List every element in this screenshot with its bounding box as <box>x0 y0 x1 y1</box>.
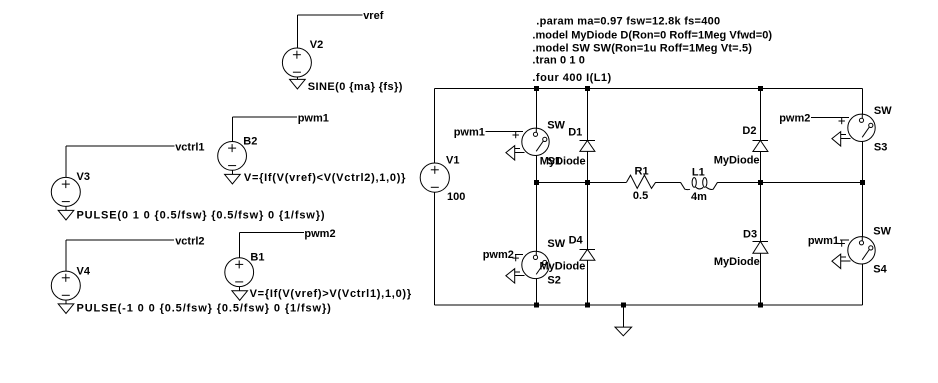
svg-text:.model SW SW(Ron=1u Roff=1Meg: .model SW SW(Ron=1u Roff=1Meg Vt=.5) <box>532 42 752 54</box>
wire control pwm1 to S4 <box>840 239 849 241</box>
svg-text:V={If(V(vref)>V(Vctrl1),1,0)}: V={If(V(vref)>V(Vctrl1),1,0)} <box>250 288 412 300</box>
svg-text:B2: B2 <box>243 135 257 147</box>
svg-text:PULSE(-1 0 0 {0.5/fsw} {0.5/fs: PULSE(-1 0 0 {0.5/fsw} {0.5/fsw} 0 {1/fs… <box>77 303 332 315</box>
junction dot bottom rail at D3 column <box>758 303 763 308</box>
svg-text:SINE(0 {ma} {fs}): SINE(0 {ma} {fs}) <box>308 81 403 93</box>
svg-text:PULSE(0 1 0 {0.5/fsw} {0.5/fsw: PULSE(0 1 0 {0.5/fsw} {0.5/fsw} 0 {1/fsw… <box>77 210 325 222</box>
svg-text:MyDiode: MyDiode <box>540 155 586 167</box>
behavioral source B2 <box>218 142 247 171</box>
ground below B2 <box>225 170 241 184</box>
svg-text:.model MyDiode D(Ron=0 Roff=1M: .model MyDiode D(Ron=0 Roff=1Meg Vfwd=0) <box>532 30 772 42</box>
wire S4 bottom <box>861 260 863 305</box>
svg-text:B1: B1 <box>250 251 264 263</box>
wire mid rail right <box>718 181 863 183</box>
voltage source V4 <box>51 271 80 300</box>
svg-text:S3: S3 <box>874 141 887 153</box>
voltage source V2 <box>282 48 311 77</box>
wire S1 bottom to mid rail <box>535 151 537 182</box>
svg-text:MyDiode: MyDiode <box>714 256 760 268</box>
wire control pwm2 to S2 <box>515 253 523 255</box>
svg-text:.four 400 I(L1): .four 400 I(L1) <box>532 72 611 84</box>
switch S2 <box>506 251 549 283</box>
wire D4 top <box>586 182 588 249</box>
svg-text:D4: D4 <box>569 235 584 247</box>
wire net vctrl2 from V4 <box>66 240 174 271</box>
ground main <box>615 327 632 336</box>
svg-text:vctrl1: vctrl1 <box>175 141 204 153</box>
wire mid rail between R1 and L1 <box>656 181 681 183</box>
wire S3 bottom to mid rail <box>861 137 863 182</box>
junction dot top rail at S1 column <box>534 86 539 91</box>
wire net vref from V2 <box>297 15 362 48</box>
svg-text:.param ma=0.97 fsw=12.8k fs=40: .param ma=0.97 fsw=12.8k fs=400 <box>536 16 720 28</box>
diode D4 <box>580 249 595 260</box>
wire D3 top <box>759 182 761 241</box>
resistor R1 <box>627 175 656 188</box>
wire D3 bottom <box>759 253 761 305</box>
wire S2 bottom <box>535 274 537 305</box>
svg-text:SW: SW <box>874 105 892 117</box>
diode D2 <box>753 140 768 151</box>
voltage source V3 <box>51 177 80 206</box>
svg-text:R1: R1 <box>635 166 649 178</box>
junction dot bottom rail at S2 column <box>534 303 539 308</box>
svg-text:pwm2: pwm2 <box>779 113 810 125</box>
svg-text:.tran 0 1 0: .tran 0 1 0 <box>532 54 585 66</box>
svg-text:SW: SW <box>547 120 565 132</box>
svg-text:S4: S4 <box>873 263 887 275</box>
wire top rail <box>434 88 862 90</box>
wire D1 top <box>586 89 588 141</box>
svg-text:SW: SW <box>547 238 565 250</box>
svg-text:100: 100 <box>447 191 465 203</box>
svg-text:D1: D1 <box>568 127 582 139</box>
svg-text:D2: D2 <box>742 125 756 137</box>
wire net vctrl1 from V3 <box>66 146 175 178</box>
behavioral source B1 <box>225 258 254 287</box>
svg-text:pwm1: pwm1 <box>298 113 329 125</box>
wire control pwm2 to S3 <box>811 116 849 118</box>
ground below V2 <box>290 77 306 89</box>
svg-text:MyDiode: MyDiode <box>714 155 760 167</box>
svg-text:pwm1: pwm1 <box>454 127 485 139</box>
switch S1 <box>506 128 549 160</box>
wire net pwm2 from B1 <box>240 233 304 258</box>
voltage source V1 <box>420 163 449 192</box>
wire V1 column bottom <box>433 192 435 305</box>
svg-text:vctrl2: vctrl2 <box>175 235 204 247</box>
inductor L1 <box>681 178 718 190</box>
junction dot top rail at D2 column <box>758 86 763 91</box>
wire mid rail left <box>536 181 626 183</box>
svg-text:V3: V3 <box>77 171 90 183</box>
wire D2 bottom <box>759 152 761 183</box>
switch S3 <box>832 114 875 146</box>
wire D4 bottom <box>586 260 588 305</box>
wire ground stem <box>622 305 624 327</box>
junction dot bottom rail at D4 column <box>585 303 590 308</box>
wire bottom rail <box>434 304 862 306</box>
wire V1 column top <box>433 89 435 164</box>
svg-text:S2: S2 <box>547 274 560 286</box>
svg-text:pwm2: pwm2 <box>483 249 514 261</box>
wire D2 top <box>759 89 761 141</box>
svg-text:D3: D3 <box>743 228 757 240</box>
diode D3 <box>753 241 768 253</box>
wire S4 top <box>861 182 863 240</box>
svg-text:vref: vref <box>363 10 384 22</box>
junction dot mid rail at D1 column <box>585 180 590 185</box>
svg-text:V4: V4 <box>77 266 91 278</box>
ground below V4 <box>58 300 74 313</box>
junction dot bottom rail at ground <box>621 303 626 308</box>
svg-text:pwm1: pwm1 <box>808 235 839 247</box>
junction dot mid rail at S3/S4 column <box>860 180 865 185</box>
wire S1 top <box>535 89 537 133</box>
svg-text:L1: L1 <box>692 167 705 179</box>
junction dot top rail at D1 column <box>585 86 590 91</box>
diode D1 <box>580 141 595 152</box>
wire D1 bottom <box>586 151 588 182</box>
wire net pwm1 from B2 <box>232 117 297 141</box>
ground below V3 <box>58 206 74 220</box>
ground below B1 <box>232 287 248 301</box>
svg-text:V2: V2 <box>310 39 323 51</box>
wire S2 top <box>535 182 537 255</box>
wire control pwm1 to S1 <box>486 130 524 132</box>
svg-text:0.5: 0.5 <box>633 190 648 202</box>
svg-text:MyDiode: MyDiode <box>540 261 586 273</box>
svg-text:pwm2: pwm2 <box>304 228 335 240</box>
svg-text:V1: V1 <box>446 155 459 167</box>
svg-text:4m: 4m <box>691 191 707 203</box>
svg-text:V={If(V(vref)<V(Vctrl2),1,0)}: V={If(V(vref)<V(Vctrl2),1,0)} <box>244 172 406 184</box>
wire S3 top <box>861 89 863 119</box>
junction dot mid rail at D2 column <box>758 180 763 185</box>
junction dot mid rail at S1/S2 column <box>534 180 539 185</box>
switch S4 <box>832 237 875 269</box>
svg-text:SW: SW <box>873 225 891 237</box>
